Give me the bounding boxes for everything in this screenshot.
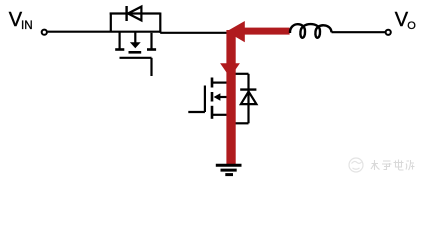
- gate of Q2: [188, 86, 205, 113]
- diode D2 body diode of Q2: [240, 90, 256, 105]
- diode D1 body diode of Q1: [127, 6, 142, 21]
- node VIN label: [9, 9, 33, 32]
- wire from VIN terminal to switch node: [48, 32, 228, 33]
- wire to body diode D1 of Q1: [110, 13, 161, 33]
- watermark logo: [349, 158, 363, 172]
- gate of Q1: [120, 58, 152, 76]
- red arrow downward: [220, 63, 240, 77]
- wire red current path vertical: [226, 30, 235, 165]
- inductor L1: [290, 24, 332, 38]
- svg-text:IN: IN: [21, 19, 33, 32]
- wire red current path horizontal: [242, 28, 290, 35]
- red arrow into switch node: [226, 21, 244, 42]
- transistor Q2 low-side MOSFET: [212, 78, 231, 119]
- terminal VIN: [42, 30, 47, 35]
- svg-text:O: O: [407, 20, 416, 32]
- wire to body diode D2 of Q2: [234, 74, 249, 124]
- node VO label: [395, 9, 417, 32]
- wire from inductor to VO terminal: [332, 31, 386, 33]
- transistor Q1 high-side MOSFET: [115, 32, 156, 53]
- terminal VO: [386, 30, 391, 35]
- ground: [216, 165, 242, 174]
- watermark text: [371, 160, 415, 171]
